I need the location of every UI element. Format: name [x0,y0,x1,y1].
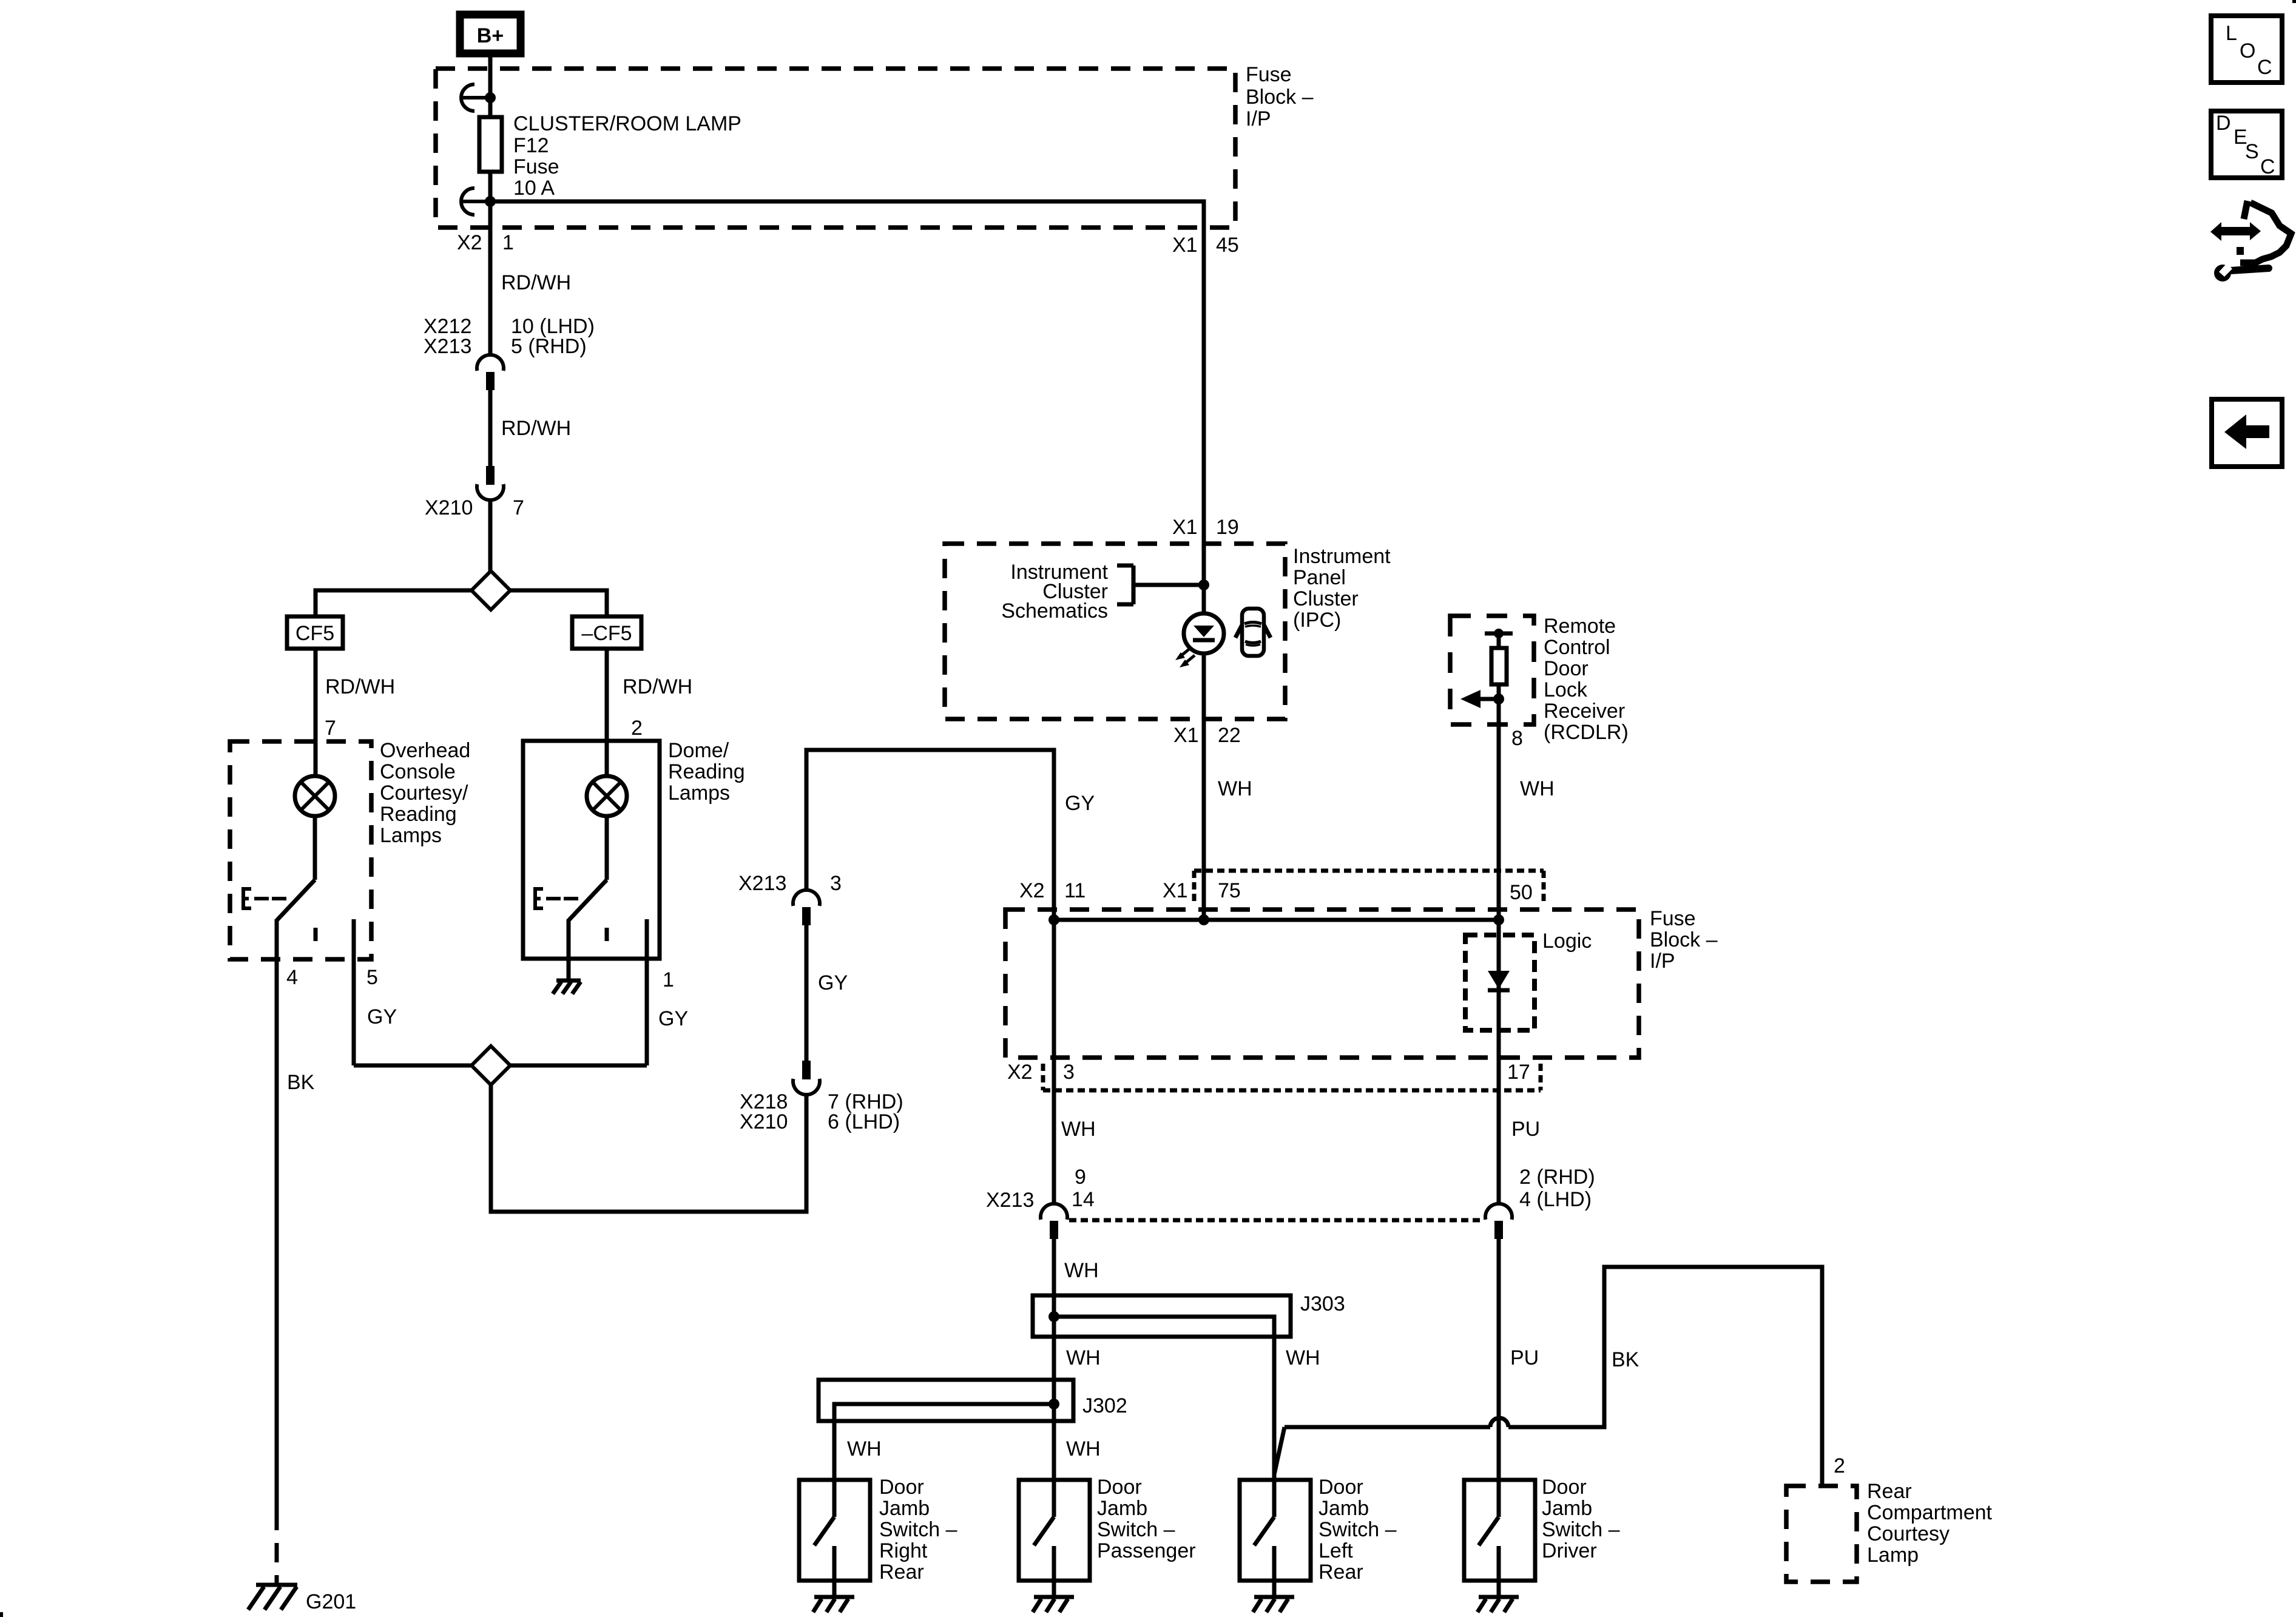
svg-text:Compartment: Compartment [1867,1501,1993,1524]
svg-text:Rear: Rear [1867,1480,1912,1503]
svg-text:Switch –: Switch – [1319,1518,1397,1541]
wire dome pin 1 GY [645,919,649,1065]
resistor RCDLR [1491,648,1507,684]
rear compartment courtesy lamp dashed box [1786,1486,1857,1582]
door symbol E dome [534,887,578,910]
junction dot J302 [1048,1399,1059,1409]
splice diamond S2 [471,1046,510,1085]
door jamb switch passenger box [1019,1480,1090,1581]
svg-text:9: 9 [1075,1166,1086,1189]
lower splice wire GY [354,1064,647,1068]
svg-text:BK: BK [1612,1348,1639,1371]
pin labels X2 3 17 [1007,1061,1530,1084]
svg-text:WH: WH [847,1437,882,1460]
label Fuse Block - I/P [1246,63,1314,130]
svg-text:J303: J303 [1300,1292,1345,1315]
ground passenger switch [1033,1581,1074,1612]
svg-text:Block –: Block – [1246,86,1314,109]
svg-text:C: C [2257,56,2272,79]
svg-text:F12: F12 [513,134,549,157]
wire BK to rear compartment lamp [1285,1267,1822,1486]
svg-text:X1: X1 [1172,234,1198,257]
connector row dotted box X2 3/17 [1043,1064,1541,1090]
svg-text:Lamps: Lamps [380,824,442,847]
ground right rear switch [813,1581,854,1612]
door jamb switch right rear box [799,1480,870,1581]
label Fuse Block - I/P lower [1650,907,1718,973]
svg-text:6 (LHD): 6 (LHD) [828,1110,900,1133]
svg-text:BK: BK [287,1071,315,1094]
svg-text:X2: X2 [457,231,482,254]
connector labels X212 X213 10(LHD) 5(RHD) [424,315,595,358]
svg-text:X2: X2 [1007,1061,1033,1084]
icon LOC box [2211,16,2282,83]
svg-text:X1: X1 [1172,516,1198,539]
svg-text:Receiver: Receiver [1544,700,1625,723]
power symbol B+ [460,15,521,53]
svg-text:RD/WH: RD/WH [501,417,571,440]
label CLUSTER/ROOM LAMP F12 Fuse 10 A [513,112,741,200]
page artifact mark top-right [2292,0,2296,3]
svg-text:X210: X210 [425,496,473,519]
svg-text:1: 1 [502,231,514,254]
svg-text:WH: WH [1061,1118,1096,1141]
svg-text:X2: X2 [1019,879,1045,902]
dashed wire to G201 [275,1511,279,1585]
label Door Jamb Switch Driver [1542,1476,1620,1562]
ground driver switch [1477,1581,1519,1612]
junction dot pin 50 [1493,914,1504,925]
svg-text:Passenger: Passenger [1097,1539,1196,1562]
switch driver [1479,1480,1499,1581]
svg-text:Door: Door [879,1476,924,1499]
svg-text:Remote: Remote [1544,615,1616,638]
remote control door lock receiver RCDLR dashed box [1450,616,1534,724]
pin labels X2 11 X1 75 50 [1019,879,1533,904]
svg-text:Courtesy/: Courtesy/ [380,781,468,805]
svg-text:Jamb: Jamb [1097,1497,1147,1520]
wire left rear from J303 [1272,1337,1277,1480]
label Remote Control Door Lock Receiver (RCDLR) [1544,615,1629,744]
svg-text:Lamps: Lamps [668,781,730,805]
svg-text:Switch –: Switch – [1097,1518,1175,1541]
svg-text:Rear: Rear [879,1561,924,1584]
arrow RCDLR output [1460,690,1497,708]
svg-text:Door: Door [1097,1476,1142,1499]
svg-text:Reading: Reading [668,760,745,783]
svg-text:8: 8 [1511,727,1523,750]
lamp L2 dome [587,741,627,816]
svg-text:CLUSTER/ROOM LAMP: CLUSTER/ROOM LAMP [513,112,741,135]
svg-text:3: 3 [1063,1061,1075,1084]
wire fuse output down to connector X212 [488,172,493,355]
connector X213-3 [793,890,820,925]
svg-text:7: 7 [513,496,524,519]
junction dot J303 [1048,1311,1059,1322]
svg-text:Right: Right [879,1539,928,1562]
label Instrument Panel Cluster (IPC) [1293,545,1391,632]
svg-text:Driver: Driver [1542,1539,1597,1562]
svg-text:X1: X1 [1173,724,1199,747]
pin label X1 45 [1172,234,1239,257]
svg-text:Cluster: Cluster [1293,587,1359,610]
label Overhead Console Courtesy/Reading Lamps [380,739,470,847]
fuse block I/P lower dashed box [1005,910,1639,1058]
svg-text:17: 17 [1507,1061,1530,1084]
lamp L1 overhead console [295,741,335,816]
wire RCDLR resistor to pin 8 and bus [1497,684,1501,920]
fuse clip lower [461,188,489,215]
switch SW2 dome [569,816,607,941]
connector X213-2/4 [1485,1204,1512,1239]
door jamb switch left rear box [1240,1480,1311,1581]
connector row dotted box X1 75/50 [1194,871,1544,905]
svg-text:4 (LHD): 4 (LHD) [1519,1188,1592,1211]
svg-text:WH: WH [1064,1259,1099,1282]
svg-text:PU: PU [1510,1346,1539,1369]
wire -CF5 to dome lamp [605,649,609,741]
wire pin 50 to pin 17 through diode [1497,920,1501,1204]
wire splice to CF5 branches [316,590,607,616]
svg-text:4: 4 [286,966,298,989]
pin label X1 22 [1173,724,1241,747]
svg-text:C: C [2260,155,2275,178]
svg-text:WH: WH [1218,777,1252,800]
svg-text:B+: B+ [477,24,504,47]
svg-text:2: 2 [1834,1454,1845,1477]
svg-text:Rear: Rear [1319,1561,1363,1584]
dome/reading lamps box [523,741,660,959]
wire overhead pin 4 BK [275,919,279,1511]
wire BK tap diagonal [1274,1427,1285,1474]
connector labels 2(RHD) 4(LHD) [1519,1166,1595,1211]
connector labels X213 3 [738,872,842,895]
svg-text:2 (RHD): 2 (RHD) [1519,1166,1595,1189]
icon service arrow and wrench [2210,201,2291,282]
svg-text:G201: G201 [306,1590,356,1613]
svg-text:22: 22 [1218,724,1241,747]
svg-text:1: 1 [663,968,674,991]
wire GY branch upper [806,750,1054,920]
label Dome/Reading Lamps [668,739,745,805]
wire fuse bus to X1-45 and down to IPC [490,201,1204,920]
switch right rear [814,1480,834,1581]
icon DESC box [2211,111,2282,178]
wire overhead pin 5 GY [352,919,356,1065]
pin label X1 19 [1172,516,1239,539]
svg-text:3: 3 [830,872,842,895]
svg-text:WH: WH [1520,777,1555,800]
svg-text:Jamb: Jamb [879,1497,930,1520]
svg-text:75: 75 [1218,879,1241,902]
wire PU connector to driver switch [1497,1239,1501,1480]
wire X210 to splice diamond [488,500,493,573]
label Door Jamb Switch Left Rear [1319,1476,1397,1584]
connector X213-9/14 [1041,1204,1067,1239]
antenna bar RCDLR [1485,629,1513,648]
connector X210-7 [477,466,504,500]
svg-text:10 A: 10 A [513,177,555,200]
svg-text:PU: PU [1511,1118,1540,1141]
svg-text:Overhead: Overhead [380,739,470,762]
svg-text:–CF5: –CF5 [581,622,632,645]
car icon [1235,609,1271,656]
svg-text:S: S [2245,140,2259,163]
svg-text:Switch –: Switch – [1542,1518,1620,1541]
svg-text:I/P: I/P [1246,107,1271,130]
svg-text:Switch –: Switch – [879,1518,957,1541]
svg-text:7: 7 [325,717,336,740]
connector labels X218 X210 7(RHD) 6(LHD) [740,1090,903,1133]
junction block J303 [1033,1295,1291,1337]
ground dome [553,981,581,994]
svg-text:X210: X210 [740,1110,788,1133]
connector row dashed line [1069,1218,1484,1223]
fuse clip upper [461,84,489,111]
switch SW1 overhead console [277,816,316,941]
LED light arrows [1175,648,1195,667]
icon back arrow box [2212,399,2282,467]
diode in logic box [1488,971,1510,990]
svg-text:Schematics: Schematics [1001,599,1108,623]
LED indicator lamp in IPC [1184,613,1224,653]
svg-text:GY: GY [367,1005,397,1028]
fuse block I/P dashed box [436,69,1235,228]
svg-text:Lamp: Lamp [1867,1544,1919,1567]
wire passenger through J303 J302 [1052,1295,1056,1480]
svg-text:I/P: I/P [1650,950,1675,973]
svg-text:Door: Door [1319,1476,1363,1499]
svg-text:45: 45 [1216,234,1239,257]
svg-text:(IPC): (IPC) [1293,609,1341,632]
connector labels X210 7 [425,496,524,519]
wire CF5 to overhead console lamp [314,649,318,741]
svg-text:X213: X213 [986,1189,1034,1212]
svg-text:X213: X213 [424,335,471,358]
svg-text:CF5: CF5 [295,622,334,645]
junction dot X2-11 [1048,914,1059,925]
svg-text:Courtesy: Courtesy [1867,1522,1950,1545]
svg-text:Fuse: Fuse [1246,63,1292,86]
svg-text:5 (RHD): 5 (RHD) [511,335,587,358]
svg-text:GY: GY [1065,792,1095,815]
label Door Jamb Switch Passenger [1097,1476,1196,1562]
switch passenger [1034,1480,1054,1581]
svg-text:X1: X1 [1163,879,1188,902]
wire WH connector to J303 [1052,1239,1056,1295]
svg-text:RD/WH: RD/WH [623,675,692,698]
wire right rear from J302 [832,1404,837,1480]
fuse F12 10A [479,117,502,172]
svg-text:Lock: Lock [1544,678,1588,701]
svg-text:Jamb: Jamb [1542,1497,1592,1520]
pin label X2 1 [457,231,514,254]
label Door Jamb Switch Right Rear [879,1476,957,1584]
svg-text:Console: Console [380,760,456,783]
junction dot fuse top [485,92,496,103]
svg-text:19: 19 [1216,516,1239,539]
bus wire inside fuse block [1054,918,1499,922]
svg-text:Left: Left [1319,1539,1353,1562]
svg-text:Reading: Reading [380,803,457,826]
label Instrument Cluster Schematics [1001,561,1108,623]
wire splice S2 to connector X218 [491,1085,806,1212]
connector X218/X210 [793,1061,820,1095]
overhead console courtesy/reading lamps dashed box [230,741,371,959]
svg-text:WH: WH [1286,1346,1320,1369]
svg-text:5: 5 [366,966,378,989]
svg-text:WH: WH [1066,1437,1101,1460]
wire RD/WH to X210 [488,390,493,466]
svg-text:Control: Control [1544,636,1610,659]
svg-text:2: 2 [631,717,643,740]
svg-text:Door: Door [1544,657,1589,680]
svg-text:Fuse: Fuse [513,155,559,178]
wire GY between connectors [805,925,809,1062]
svg-text:Fuse: Fuse [1650,907,1696,930]
svg-text:RD/WH: RD/WH [325,675,395,698]
junction dot RCDLR [1493,694,1504,704]
door jamb switch driver box [1464,1480,1535,1581]
page artifact mark bottom-left [0,1612,3,1617]
ground left rear switch [1253,1581,1294,1612]
svg-text:O: O [2240,39,2255,62]
svg-text:WH: WH [1066,1346,1101,1369]
svg-text:Logic: Logic [1542,930,1592,953]
svg-text:RD/WH: RD/WH [501,271,571,294]
fuse CF5 box [287,616,343,649]
instrument panel cluster IPC dashed box [945,544,1285,719]
fuse -CF5 box [572,616,641,649]
junction dot bracket [1198,579,1209,590]
svg-text:Instrument: Instrument [1293,545,1391,568]
svg-text:11: 11 [1064,879,1086,902]
junction dot fuse bottom [485,196,496,207]
svg-text:Jamb: Jamb [1319,1497,1369,1520]
svg-text:50: 50 [1510,881,1533,904]
svg-text:L: L [2226,22,2237,45]
svg-text:GY: GY [818,971,848,994]
wire B+ to fuse [488,53,493,117]
logic dashed box [1465,935,1535,1030]
wire X2-11 down to connector X213 [1052,920,1056,1204]
junction block J302 [819,1380,1073,1421]
junction dot X1-75 [1198,914,1209,925]
svg-text:J302: J302 [1082,1394,1127,1417]
door symbol E overhead [242,887,286,910]
wire dome switch to ground [567,919,571,979]
svg-text:(RCDLR): (RCDLR) [1544,721,1629,744]
bracket instrument cluster schematics [1117,565,1204,604]
connector X212/X213 [477,355,504,390]
svg-text:Panel: Panel [1293,566,1346,589]
svg-text:Dome/: Dome/ [668,739,729,762]
splice diamond S1 [471,571,510,610]
svg-text:X213: X213 [738,872,786,895]
svg-text:Block –: Block – [1650,928,1718,951]
switch left rear [1254,1480,1274,1581]
ground G201 [248,1585,297,1610]
svg-text:14: 14 [1072,1188,1095,1211]
connector labels X213 9 14 [986,1166,1095,1212]
label Rear Compartment Courtesy Lamp [1867,1480,1993,1567]
svg-text:Door: Door [1542,1476,1587,1499]
svg-text:GY: GY [658,1007,688,1030]
svg-text:D: D [2216,112,2231,135]
